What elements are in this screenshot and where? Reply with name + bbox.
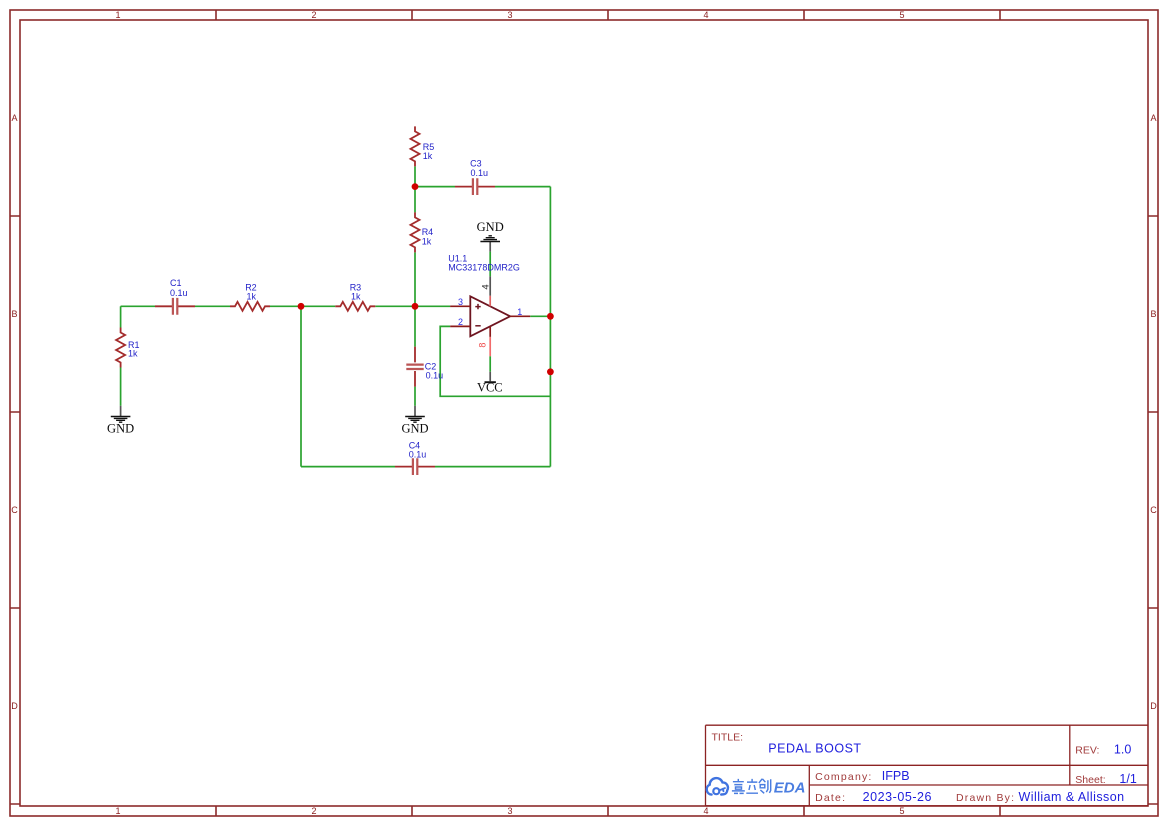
svg-text:GND: GND [401,421,428,435]
svg-text:A: A [11,113,17,123]
svg-text:0.1u: 0.1u [409,449,427,459]
op-amp labels U1.1 MC33178DMR2G [448,253,520,272]
wire node C to C3 [415,186,455,188]
svg-text:8: 8 [477,343,487,348]
wire R5 to R4 through node C [414,166,416,212]
svg-text:1k: 1k [422,237,432,247]
wire R4 to C2 through node B [414,252,416,346]
capacitor C4 [395,441,435,475]
svg-text:Drawn By:: Drawn By: [956,792,1015,804]
svg-text:1: 1 [517,307,522,317]
wire R1 to GND [120,368,122,406]
resistor R5 [411,126,435,166]
svg-text:REV:: REV: [1075,745,1099,757]
wire bottom to C4 [301,466,395,468]
company cell [815,769,909,783]
svg-text:1.0: 1.0 [1114,743,1131,757]
svg-text:1k: 1k [351,292,361,302]
ruler letters left [11,113,18,711]
junction output node [547,313,554,320]
wire R2 to R3 through node A [270,305,335,307]
column ticks bottom [216,806,1000,816]
wire R3 to op-amp pin3 through node B [375,305,450,307]
rev cell [1075,743,1131,757]
sheet cell [1075,772,1137,786]
wire input down to R1 [120,306,122,327]
svg-text:C: C [11,505,18,515]
svg-text:3: 3 [507,10,512,20]
wire C2 to GND [414,387,416,406]
svg-text:5: 5 [899,10,904,20]
svg-text:3: 3 [507,806,512,816]
junction feedback node [547,368,554,375]
resistor R1 [116,328,139,368]
svg-text:TITLE:: TITLE: [712,732,744,744]
date cell [815,790,932,804]
svg-text:1: 1 [115,10,120,20]
resistor R3 [335,283,375,311]
wire right rail vertical [549,187,551,467]
svg-text:4: 4 [703,10,708,20]
junction node A [298,303,305,310]
wire pin2 stub [440,326,550,396]
title block outline [706,725,1149,806]
svg-text:GND: GND [107,421,134,435]
ground symbol C2 [401,406,428,436]
svg-text:D: D [11,701,18,711]
wire node A down [300,306,302,466]
op-amp pin 1 [510,307,530,317]
svg-text:4: 4 [480,284,491,289]
svg-text:2023-05-26: 2023-05-26 [863,790,932,804]
svg-text:EDA: EDA [774,779,806,796]
op-amp pin 3 [450,297,470,307]
svg-text:MC33178DMR2G: MC33178DMR2G [448,263,520,273]
svg-text:0.1u: 0.1u [426,371,444,381]
logo EDA text [774,779,806,796]
ruler numbers bottom [115,806,904,816]
op-amp U1 triangle [470,296,510,336]
resistor R4 [411,212,434,252]
wire input main [121,305,155,307]
wire C4 to right rail [435,466,550,468]
svg-text:GND: GND [477,220,504,234]
svg-text:B: B [11,309,17,319]
logo hanzi chuang [759,779,771,794]
svg-text:Sheet:: Sheet: [1075,774,1105,786]
svg-text:2: 2 [458,317,463,327]
svg-text:Date:: Date: [815,792,846,804]
wire C3 to right rail [495,186,550,188]
svg-text:C1: C1 [170,278,182,288]
ground symbol op-amp pin4 [477,220,504,251]
svg-text:2: 2 [311,806,316,816]
svg-text:Company:: Company: [815,771,872,783]
svg-text:5: 5 [899,806,904,816]
op-amp pin 8 [477,326,490,356]
svg-text:1/1: 1/1 [1119,772,1136,786]
svg-text:1: 1 [115,806,120,816]
svg-text:PEDAL BOOST: PEDAL BOOST [768,742,861,756]
title text [712,732,862,756]
svg-text:B: B [1150,309,1156,319]
row ticks left [10,216,20,804]
svg-text:VCC: VCC [477,381,503,395]
vcc symbol [477,372,503,395]
svg-text:IFPB: IFPB [882,769,910,783]
capacitor C2 [406,347,443,387]
op-amp pin 2 [450,317,470,327]
ruler numbers top [115,10,904,20]
svg-text:C: C [1150,505,1157,515]
svg-text:D: D [1150,701,1157,711]
svg-text:R4: R4 [422,227,434,237]
row ticks right [1148,216,1158,804]
junction node B [412,303,419,310]
svg-text:0.1u: 0.1u [471,168,489,178]
capacitor C1 [155,278,195,314]
svg-text:A: A [1150,113,1156,123]
capacitor C3 [455,159,495,195]
wire GND to op-amp pin4 [489,252,491,277]
column ticks top [216,10,1000,20]
wire C1 to R2 [195,305,230,307]
resistor R2 [230,283,270,311]
logo hanzi li [746,779,758,793]
wire op-amp output [530,315,550,317]
ruler letters right [1150,113,1157,711]
junction node C [412,183,419,190]
svg-text:4: 4 [703,806,708,816]
logo hanzi jia [732,779,745,794]
drawn by cell [956,790,1125,804]
svg-text:1k: 1k [247,292,257,302]
ground symbol R1 [107,406,134,436]
svg-text:0.1u: 0.1u [170,288,188,298]
svg-text:1k: 1k [128,349,138,359]
svg-text:1k: 1k [423,151,433,161]
svg-text:William & Allisson: William & Allisson [1019,790,1125,804]
svg-text:3: 3 [458,297,463,307]
logo jlc eda cloud icon [707,778,728,795]
wire op-amp pin8 to VCC [489,356,491,372]
svg-text:2: 2 [311,10,316,20]
op-amp pin 4 [480,276,491,306]
